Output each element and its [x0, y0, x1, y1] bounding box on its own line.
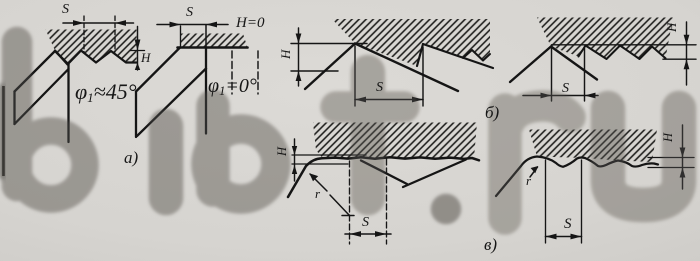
groove rising flank below surface — [403, 160, 466, 188]
extension line from tip — [180, 26, 182, 47]
tool 1 tip flank 45deg — [55, 51, 69, 65]
machined flat surface — [178, 46, 248, 49]
S extension from valley — [422, 47, 424, 106]
r leader second segment — [330, 195, 349, 215]
svg-text:H: H — [140, 50, 151, 65]
svg-text:H: H — [664, 22, 679, 33]
watermark dot — [431, 194, 461, 224]
svg-text:φ1≈45°: φ1≈45° — [75, 79, 137, 105]
watermark veil layer — [17, 42, 679, 224]
S extension from peak — [354, 46, 356, 106]
svg-text:H: H — [661, 132, 675, 143]
tool 2 right edge extension above surface — [205, 25, 207, 48]
profile slope and scalloped surface v-right — [496, 157, 658, 197]
S extension dashed v-middle left — [349, 161, 351, 244]
S dimension line b-left — [355, 99, 423, 101]
arrow left at x115 — [115, 20, 126, 26]
lower reference line b-right — [663, 58, 696, 60]
S extension tooth b-right — [584, 47, 586, 101]
svg-text:а): а) — [124, 148, 139, 167]
scan shadow left edge — [0, 84, 4, 179]
tool 2 main cutting edge — [136, 48, 180, 92]
profile b-left left rise — [305, 44, 355, 90]
H arrow up v-right — [680, 168, 686, 178]
S extension peak b-right — [551, 48, 553, 101]
watermark b2 bowl — [206, 129, 276, 199]
svg-text:S: S — [376, 80, 383, 95]
arrow right at x84 — [73, 20, 84, 26]
lower reference line — [291, 70, 338, 72]
profile b-right long slope — [551, 47, 597, 80]
tool 2 bottom edge — [137, 69, 206, 137]
watermark i — [149, 126, 183, 198]
arrow pointing right tip 386.5 — [375, 231, 387, 237]
S dimension line a-right — [157, 24, 228, 26]
S dimension line b-right — [523, 95, 598, 97]
profile slope and wavy surface v-middle — [288, 157, 479, 197]
hatched band b-left — [332, 19, 490, 66]
svg-text:S: S — [186, 5, 193, 20]
H arrow down v-right — [680, 148, 686, 158]
S dimension line v-right — [546, 236, 582, 238]
upper reference line b-right — [552, 44, 697, 46]
H vertical v-middle — [294, 139, 296, 181]
profile b-right left rise — [510, 47, 551, 83]
watermark b1 stem — [2, 42, 32, 186]
H dimension vertical a-left — [137, 27, 139, 71]
hatched band b-right — [537, 18, 673, 60]
hatched band v-right — [529, 130, 657, 163]
tooth3 zigzag — [463, 50, 490, 61]
H vertical v-right — [682, 125, 684, 189]
watermark t bar — [336, 92, 404, 123]
arrow right-pointing tip 581.5 — [571, 234, 582, 240]
hatched band v-middle — [313, 123, 477, 159]
S extension v-right right — [581, 160, 583, 243]
S dimension line a-left — [63, 22, 134, 24]
arrow pointing right tip 551.5 — [541, 93, 552, 99]
tool 1 main cutting edge — [15, 51, 56, 92]
groove falling flank below surface — [361, 161, 407, 185]
svg-text:в): в) — [484, 235, 497, 254]
upper reference line — [291, 43, 367, 45]
arrow right-pointing tip b-left — [412, 97, 423, 103]
watermark b1 bowl — [17, 131, 85, 199]
svg-text:φ1=0°: φ1=0° — [208, 75, 257, 98]
watermark r stem — [489, 110, 522, 218]
watermark b2 stem — [197, 106, 230, 190]
H arrow up v-middle — [292, 165, 297, 174]
S dimension line v-middle — [345, 233, 391, 235]
tool 2 left end — [135, 92, 137, 138]
extension dashed x84 — [83, 16, 85, 52]
svg-text:H=0: H=0 — [235, 15, 265, 31]
extension dashed x115 — [114, 16, 116, 52]
svg-text:S: S — [62, 2, 69, 17]
H arrow up b-right — [684, 59, 690, 69]
arrow pointing left tip 583.5 — [585, 93, 596, 99]
profile b-left long slope A — [355, 44, 458, 92]
tooth2 steep flank — [417, 44, 423, 66]
svg-text:S: S — [562, 81, 569, 96]
tool 1 right edge — [67, 65, 69, 143]
r leader arrow v-middle — [310, 174, 327, 191]
S extension v-right left — [545, 160, 547, 243]
svg-text:H: H — [275, 146, 289, 157]
dashed vertical x232 — [231, 51, 233, 94]
arrow pointing left tip 349.5 — [350, 231, 362, 237]
upper ref v-right — [648, 157, 694, 159]
tool 2 right edge — [205, 48, 207, 134]
S extension dashed v-middle right — [386, 159, 388, 244]
watermark t stem — [351, 72, 385, 198]
dashed vertical x258 — [257, 51, 259, 94]
r leader tick — [342, 215, 354, 217]
hatched band a-right — [180, 34, 248, 48]
profile b-left long slope C — [423, 44, 493, 68]
H dimension vertical b-left — [298, 28, 300, 86]
upper ref v-middle — [292, 154, 366, 156]
svg-text:S: S — [564, 216, 572, 232]
roughness profile a-left — [55, 51, 137, 65]
hatched band a-left — [46, 30, 137, 65]
lower ref v-right — [648, 167, 694, 169]
watermark r arm — [505, 106, 570, 138]
H arrow down — [296, 34, 302, 44]
H arrow down v-middle — [292, 146, 297, 155]
svg-text:S: S — [362, 215, 369, 230]
H arrow down b-right — [684, 35, 690, 45]
teeth zigzag b-right — [579, 46, 666, 60]
H arrow up tip — [135, 63, 140, 70]
watermark u — [608, 108, 679, 205]
H tick upper — [131, 50, 145, 52]
lower ref v-middle — [292, 163, 348, 165]
H arrow down tip — [135, 40, 141, 51]
svg-text:H: H — [278, 49, 293, 60]
arrow left-pointing tip b-left — [355, 97, 366, 103]
svg-text:б): б) — [485, 103, 500, 122]
arrow left at x206 — [206, 22, 217, 28]
tool 1 bottom edge — [15, 69, 69, 124]
arrow left-pointing tip 545.5 — [546, 234, 557, 240]
arrow right at x180.5 — [170, 22, 181, 28]
tool 1 left end — [13, 92, 15, 125]
r leader v-right — [530, 167, 538, 177]
H dimension vertical b-right — [686, 22, 688, 85]
H arrow up — [296, 71, 302, 81]
